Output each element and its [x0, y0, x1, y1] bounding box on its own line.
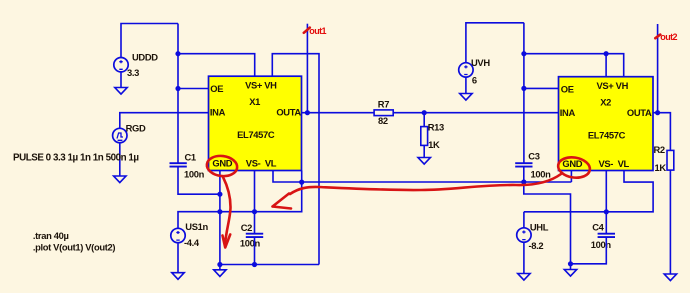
svg-text:OE: OE: [561, 84, 574, 95]
node X2 VS+ pin junction: [604, 51, 609, 56]
capacitor C2: [240, 222, 263, 249]
svg-text:UVH: UVH: [471, 57, 490, 68]
wire X2 OUTA to R2: [653, 113, 670, 151]
wire OUTA row: [302, 112, 559, 114]
capacitor C1: [170, 152, 205, 180]
svg-text:C2: C2: [241, 222, 252, 233]
wire UVH rail vertical to C3: [523, 23, 525, 163]
wire C2 bottom lead: [254, 238, 256, 265]
wire X2 low rail: [524, 171, 653, 212]
ground UDDD: [115, 72, 127, 94]
svg-text:OUTA: OUTA: [627, 107, 652, 118]
wire out1 stub: [306, 24, 308, 113]
node out2: [655, 32, 677, 42]
voltage source RGD (pulse): [113, 122, 146, 142]
red ellipse around X1 GND: [206, 154, 239, 178]
svg-text:INA: INA: [210, 107, 226, 118]
wire RGD bottom lead: [119, 143, 121, 176]
wire VS+ rail: [178, 54, 255, 77]
capacitor C3: [515, 151, 551, 180]
wire bottom rail X1: [220, 264, 319, 266]
wire X2 VS- vertical: [605, 171, 607, 234]
svg-text:3.3: 3.3: [127, 67, 139, 78]
svg-text:VS- VL: VS- VL: [599, 158, 630, 169]
svg-text:.tran 40µ: .tran 40µ: [33, 230, 69, 241]
svg-text:-8.2: -8.2: [529, 240, 544, 251]
node US1n-VS- junction: [252, 209, 257, 214]
voltage source US1n: [171, 221, 209, 248]
wire US1n top rail: [178, 182, 302, 228]
node C3 rail junction: [521, 179, 526, 184]
node R13 junction: [422, 110, 427, 115]
node X2 OUTA junction: [655, 110, 660, 115]
wire VL long rail to C3: [302, 181, 572, 183]
svg-text:RGD: RGD: [126, 122, 146, 133]
node out1: [304, 26, 327, 36]
svg-text:EL7457C: EL7457C: [237, 129, 275, 140]
wire X2 GND vertical: [570, 171, 572, 183]
voltage source UDDD: [114, 52, 158, 79]
svg-text:X1: X1: [249, 96, 260, 107]
node X2 GND rail junction: [568, 261, 573, 266]
capacitor C4: [591, 221, 615, 250]
resistor R13: [421, 113, 444, 158]
svg-text:R7: R7: [378, 98, 389, 109]
wire C1 bottom jog: [178, 168, 220, 195]
wire RGD to INA: [120, 113, 209, 129]
svg-text:PULSE 0 3.3 1µ 1n 1n 500n 1µ: PULSE 0 3.3 1µ 1n 1n 500n 1µ: [13, 152, 139, 163]
svg-text:VS+ VH: VS+ VH: [245, 80, 277, 91]
svg-text:OUTA: OUTA: [276, 107, 301, 118]
wire US1n bottom lead: [177, 243, 179, 273]
svg-text:INA: INA: [560, 107, 576, 118]
svg-text:82: 82: [378, 115, 388, 126]
node OUTA junction: [305, 110, 310, 115]
op-amp U1: driver X1 EL7457C: [209, 76, 302, 170]
svg-text:X2: X2: [600, 97, 611, 108]
ground R13: [418, 158, 430, 165]
wire C4 bottom lead to rail: [571, 238, 607, 264]
wire OE rail: [178, 88, 209, 90]
svg-text:UHL: UHL: [530, 221, 549, 232]
wire X2 VS+ rail: [524, 54, 624, 77]
voltage source UHL: [517, 221, 549, 251]
svg-text:1K: 1K: [655, 162, 667, 173]
svg-text:out2: out2: [660, 32, 677, 42]
svg-text:VS+ VH: VS+ VH: [597, 80, 629, 91]
svg-text:1K: 1K: [428, 139, 440, 150]
voltage source UVH: [459, 57, 491, 85]
ground UVH: [460, 77, 472, 100]
op-amp U2: driver X2 EL7457C: [559, 77, 654, 171]
node C1-GND junction: [217, 192, 222, 197]
node X2 VS- low junction: [604, 209, 609, 214]
node VS+ junction: [175, 51, 180, 56]
ground US1n: [172, 273, 184, 280]
svg-text:out1: out1: [309, 26, 326, 36]
svg-text:-4.4: -4.4: [184, 237, 200, 248]
svg-text:6: 6: [472, 74, 477, 85]
resistor R7: [374, 98, 393, 125]
wire C3 bottom jog to X2 GND: [524, 168, 571, 264]
ground RGD: [114, 176, 126, 183]
node OE junction: [175, 86, 180, 91]
svg-text:R2: R2: [654, 144, 665, 155]
svg-text:US1n: US1n: [185, 221, 208, 232]
svg-text:EL7457C: EL7457C: [588, 130, 626, 141]
svg-text:GND: GND: [212, 158, 232, 169]
svg-text:OE: OE: [210, 83, 223, 94]
node X2 VS+ rail left junction: [521, 51, 526, 56]
svg-text:.plot V(out1) V(out2): .plot V(out1) V(out2): [33, 242, 115, 253]
svg-text:UDDD: UDDD: [132, 52, 158, 63]
node US1n-GND junction: [217, 209, 222, 214]
svg-text:C4: C4: [592, 221, 604, 232]
wire GND vertical: [219, 171, 221, 265]
svg-text:100n: 100n: [184, 169, 205, 180]
svg-text:VS- VL: VS- VL: [246, 158, 277, 169]
svg-text:100n: 100n: [531, 169, 552, 180]
wire VS- vertical: [254, 171, 256, 234]
wire UDDD rail vertical: [177, 24, 179, 163]
resistor R2: [654, 144, 674, 274]
red long arrow to X1 low rail: [290, 174, 561, 194]
ground X1 rail: [214, 265, 226, 277]
red ellipse around X2 GND: [557, 155, 592, 180]
wire out2 stub: [657, 24, 659, 113]
node C2 rail junction: [252, 262, 257, 267]
wire UHL bottom lead: [523, 242, 525, 273]
ground UHL: [518, 274, 530, 281]
node X2 OE junction: [521, 86, 526, 91]
svg-text:C1: C1: [185, 152, 196, 163]
svg-text:R13: R13: [428, 121, 444, 132]
ground X2: [564, 264, 576, 276]
svg-text:100n: 100n: [591, 239, 612, 250]
ground R2: [664, 274, 676, 281]
red arrow from X1 GND down: [223, 177, 231, 245]
wire UVH top lead: [466, 23, 524, 63]
svg-text:C3: C3: [528, 151, 539, 162]
wire X2 OE rail: [524, 87, 559, 89]
node GND rail junction: [217, 262, 222, 267]
wire VL jog: [273, 171, 302, 183]
wire VH rail: [272, 54, 319, 265]
wire UHL top lead: [523, 212, 525, 228]
svg-text:100n: 100n: [240, 238, 261, 249]
node VL junction: [299, 180, 304, 185]
wire UDDD top lead: [121, 24, 178, 58]
